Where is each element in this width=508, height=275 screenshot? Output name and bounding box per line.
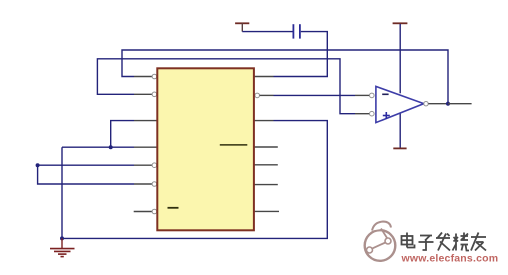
- pin U1 right row5 (stub): [254, 164, 278, 166]
- pin U1 left row4: [134, 146, 157, 148]
- junction op-amp output: [446, 102, 450, 106]
- pin U1 right row3: [254, 120, 274, 122]
- wire rail2 (U1 left pin 2 to op-amp + input): [97, 59, 355, 114]
- pin U1 left row6: [134, 182, 157, 187]
- pin U1 right row1: [254, 76, 274, 78]
- pin U1 right row6 (stub): [254, 184, 278, 186]
- op-amp U2: [376, 86, 424, 122]
- wire feedback rail (op-amp output to U1 left pin 1): [122, 50, 448, 104]
- wire VCC1 to capacitor: [242, 31, 292, 33]
- junction rows5-6: [36, 163, 40, 167]
- pin op-amp non-inverting input: [355, 111, 374, 116]
- power port VCC1 (top-left T bar): [235, 23, 249, 31]
- ground GND1: [50, 238, 75, 256]
- label dash inside U1 (upper right): [220, 144, 248, 146]
- power port VEE (below op-amp): [393, 147, 406, 149]
- pin U1 left row2: [134, 92, 157, 97]
- capacitor C1: [293, 24, 300, 38]
- wire output stub: [448, 103, 472, 105]
- pin U1 right row7 (stub): [254, 210, 279, 212]
- wire VCC2 to op-amp V+: [399, 24, 401, 93]
- IC U1 body: [157, 68, 254, 230]
- watermark text 烧: [453, 233, 470, 251]
- watermark text 友: [471, 233, 486, 251]
- pin op-amp output: [424, 102, 448, 106]
- watermark text 子: [419, 236, 434, 251]
- watermark logo circle: [365, 222, 396, 261]
- pin U1 left row1: [134, 74, 157, 79]
- wire U1 right row2 to op-amp - input: [274, 94, 356, 96]
- label dash inside U1 (lower left): [168, 207, 179, 209]
- pin U1 left row3: [134, 120, 157, 122]
- wire U1 left row3 down to row4 junction: [111, 121, 134, 148]
- power port VCC2 (above op-amp): [393, 22, 408, 24]
- wire capacitor to corner: [274, 32, 328, 77]
- pin U1 right row2: [255, 93, 274, 98]
- wire U1 left row4 to ground vertical: [62, 146, 134, 148]
- watermark text 发: [436, 233, 450, 251]
- pin U1 left row5: [134, 163, 157, 168]
- junction ground: [60, 236, 64, 240]
- pin U1 left row7 (stub): [134, 209, 157, 214]
- wire U1 left rows 5-6 tie: [38, 164, 134, 166]
- wire op-amp V- to VEE bar: [399, 113, 401, 148]
- svg-text:www.elecfans.com: www.elecfans.com: [401, 253, 499, 265]
- wire ground loop (left vertical, bottom run, right vertical to U1 right pin 3): [62, 121, 327, 239]
- pin U1 right row4 (stub): [254, 146, 278, 148]
- watermark text 电: [402, 233, 415, 248]
- junction row3/row4: [109, 145, 113, 149]
- pin op-amp inverting input: [355, 93, 374, 98]
